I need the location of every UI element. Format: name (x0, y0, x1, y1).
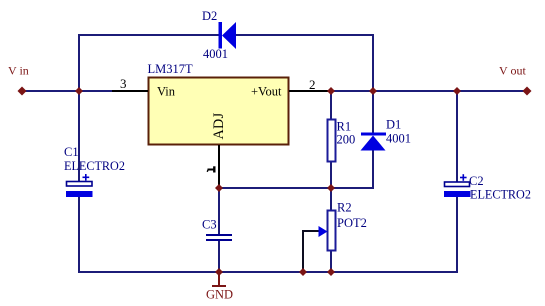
capacitor C2 plus sign (460, 174, 467, 181)
capacitor C3 top plate (206, 234, 232, 236)
svg-text:GND: GND (206, 288, 233, 302)
junction C2 top / Vout net (453, 87, 461, 95)
potentiometer R2 wiper arrow (319, 226, 328, 237)
svg-text:3: 3 (120, 76, 127, 91)
potentiometer R2 body (328, 211, 336, 251)
node Vout terminal (523, 87, 532, 96)
wire R1 top lead (330, 91, 332, 119)
wire C3 bottom lead (218, 241, 220, 273)
wire C2 top lead (456, 90, 458, 182)
svg-text:Vin: Vin (157, 85, 176, 99)
svg-text:R1: R1 (337, 120, 352, 134)
svg-text:C3: C3 (202, 218, 217, 232)
junction ADJ pin / adj net (215, 184, 223, 192)
svg-text:ELECTRO2: ELECTRO2 (470, 188, 531, 202)
junction R1 top / Vout net (327, 87, 335, 95)
wire R2 wiper vertical down to ground net (302, 230, 304, 273)
wire bottom ground net (78, 271, 458, 273)
svg-text:C1: C1 (64, 145, 79, 159)
diode D1 cathode bar (361, 133, 386, 136)
svg-text:200: 200 (337, 133, 356, 147)
wire top-right vertical down to Vout net (372, 34, 374, 91)
ground symbol GND (212, 273, 226, 286)
svg-text:D1: D1 (386, 118, 401, 132)
pin 2 Vout pin wire (289, 90, 329, 92)
pin 3 Vin pin wire (112, 90, 148, 92)
junction input column / Vin net (75, 87, 83, 95)
junction wiper / ground net (299, 268, 307, 276)
svg-text:POT2: POT2 (337, 216, 367, 230)
wire Vout horizontal net (320, 90, 527, 92)
svg-text:ELECTRO2: ELECTRO2 (64, 159, 125, 173)
capacitor C1 plus sign (83, 174, 90, 181)
pin 1 ADJ pin wire (218, 145, 220, 188)
diode D2 triangle (222, 22, 236, 49)
svg-text:2: 2 (309, 77, 316, 92)
junction R2 bottom / ground net (327, 268, 335, 276)
capacitor C2 bottom plate (444, 191, 471, 197)
wire D1 top lead (372, 91, 374, 133)
svg-text:ADJ: ADJ (211, 112, 227, 139)
wire left vertical riser (input column) (78, 34, 80, 92)
node Vin terminal (18, 87, 27, 96)
svg-text:+Vout: +Vout (251, 85, 282, 99)
wire C1 top lead (78, 90, 80, 182)
svg-text:V in: V in (8, 64, 29, 78)
wire top net from D2 cathode to right column (236, 34, 374, 36)
junction R1 bottom / adj net (327, 184, 335, 192)
wire R2 wiper horizontal (303, 230, 319, 232)
wire C1 bottom lead (78, 197, 80, 273)
wire R2 bottom lead (330, 251, 332, 273)
junction C3 bottom / ground net (215, 268, 223, 276)
op-amp U1 regulator LM317T body (149, 78, 289, 145)
wire ADJ horizontal net (219, 187, 374, 189)
wire top net from input column to D2 anode (79, 34, 219, 36)
pin number 1 (rotated digit drawn as strokes) (207, 166, 214, 172)
svg-text:R2: R2 (337, 201, 352, 215)
capacitor C2 top plate (445, 182, 470, 187)
wire D1 bottom lead (372, 150, 374, 189)
capacitor C1 top plate (67, 182, 93, 187)
capacitor C3 bottom plate (206, 239, 232, 241)
svg-text:4001: 4001 (386, 132, 411, 146)
resistor R1 body (328, 120, 336, 162)
svg-text:LM317T: LM317T (148, 62, 194, 76)
svg-text:D2: D2 (202, 9, 217, 23)
svg-text:4001: 4001 (203, 47, 228, 61)
wire R1 bottom lead (330, 162, 332, 189)
junction D1 top / Vout net (369, 87, 377, 95)
diode D2 cathode bar (219, 22, 223, 49)
capacitor C1 bottom plate (66, 191, 93, 197)
wire input horizontal Vin net (21, 90, 117, 92)
wire R2 top lead (330, 188, 332, 210)
svg-text:V out: V out (499, 64, 526, 78)
svg-text:C2: C2 (469, 174, 484, 188)
diode D1 triangle (361, 136, 386, 151)
wire C2 bottom lead (456, 197, 458, 273)
wire C3 top lead (218, 188, 220, 234)
